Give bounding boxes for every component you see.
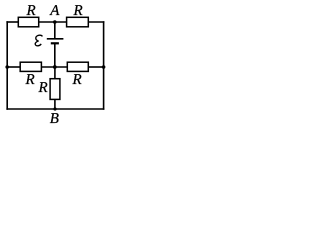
resistor R3 middle-left box [20, 62, 41, 71]
wire bottom [6, 108, 104, 110]
node B junction dot [53, 107, 56, 110]
resistor R4 middle-right box [67, 62, 88, 71]
junction dot right-middle [102, 65, 106, 69]
wire middle R4 to right edge [88, 66, 103, 68]
battery E short plate [51, 42, 59, 44]
wire right edge [103, 21, 105, 110]
resistor R5 vertical box [50, 79, 60, 100]
wire middle-left segment [7, 66, 20, 68]
wire top-left segment [6, 21, 18, 23]
svg-text:R: R [26, 3, 36, 19]
battery E long plate [47, 38, 64, 40]
EMF source label script-E [35, 35, 42, 46]
wire middle between R3 and center node [41, 66, 67, 68]
wire node A down to battery [54, 22, 56, 39]
svg-text:R: R [73, 3, 83, 19]
svg-text:R: R [72, 72, 82, 88]
wire battery to middle node [54, 43, 56, 67]
wire R5 to bottom wire [54, 99, 56, 109]
junction dot left-middle [5, 65, 9, 69]
svg-text:R: R [38, 80, 48, 96]
node A junction dot [53, 20, 57, 24]
wire left edge [6, 21, 8, 110]
wire middle node down to R5 [54, 67, 56, 79]
svg-text:A: A [49, 3, 60, 19]
resistor R2 top-right box [67, 17, 89, 27]
resistor R1 top-left box [18, 17, 38, 27]
wire between R1 and node A [39, 21, 67, 23]
wire R2 to top-right corner [88, 21, 104, 23]
svg-text:R: R [25, 72, 35, 88]
svg-text:B: B [50, 111, 59, 127]
junction dot center-middle [53, 65, 57, 69]
